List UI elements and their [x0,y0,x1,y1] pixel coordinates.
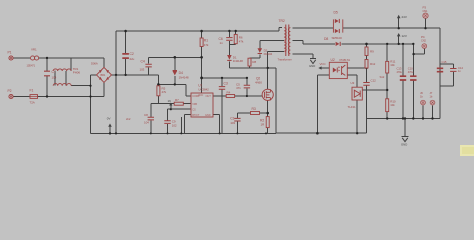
svg-text:GND: GND [205,113,211,117]
svg-text:47k: 47k [204,43,209,47]
svg-text:VCC: VCC [320,62,327,66]
svg-text:TL431: TL431 [348,105,356,109]
svg-text:P3: P3 [423,6,427,10]
svg-text:R9: R9 [370,49,374,53]
svg-text:C14: C14 [458,66,463,70]
svg-text:C12: C12 [371,78,377,82]
svg-text:22u: 22u [130,57,135,61]
svg-text:1N4148: 1N4148 [179,75,189,79]
svg-text:UC3842: UC3842 [198,88,209,92]
svg-text:CN2: CN2 [421,39,427,43]
svg-text:47k: 47k [239,39,244,43]
svg-text:104: 104 [144,120,149,124]
svg-text:470u: 470u [397,70,403,74]
svg-text:R7: R7 [175,98,179,102]
svg-text:1N4148: 1N4148 [233,59,243,63]
svg-text:OUT: OUT [206,94,212,98]
svg-text:D5: D5 [334,10,338,14]
svg-text:VCC: VCC [198,93,203,97]
svg-text:P2: P2 [8,89,12,93]
svg-text:470u: 470u [408,70,414,74]
svg-text:P4: P4 [421,35,425,39]
svg-text:D06A: D06A [91,62,98,66]
svg-text:24V: 24V [402,15,407,19]
svg-text:Transformer: Transformer [278,57,292,61]
svg-text:10k: 10k [390,63,395,67]
svg-text:CS: CS [192,107,196,111]
svg-text:T2A: T2A [30,101,35,105]
svg-text:10k: 10k [390,103,395,107]
svg-text:GND: GND [401,143,407,147]
svg-text:103: 103 [140,67,145,71]
svg-text:D8: D8 [324,37,328,41]
svg-text:U2: U2 [331,58,335,62]
svg-text:F1: F1 [30,88,34,92]
svg-text:C15: C15 [442,60,447,64]
svg-text:P1: P1 [8,51,12,55]
svg-text:10D471: 10D471 [27,64,36,68]
svg-text:2n2: 2n2 [126,117,131,121]
svg-text:1n: 1n [220,41,224,45]
svg-text:S12: S12 [380,75,385,79]
svg-text:VR1: VR1 [31,48,37,52]
svg-text:R3: R3 [252,107,256,111]
svg-text:471: 471 [236,86,241,90]
svg-text:4N60: 4N60 [255,80,262,84]
svg-text:GND: GND [309,64,315,68]
svg-text:TR2: TR2 [279,19,285,23]
svg-text:104: 104 [52,76,57,80]
svg-text:R4: R4 [227,91,231,95]
svg-text:47k: 47k [162,90,167,94]
svg-text:C2: C2 [130,52,134,56]
svg-text:102: 102 [172,123,177,127]
svg-text:BR1: BR1 [101,73,106,77]
svg-text:C8: C8 [144,113,148,117]
svg-text:16: 16 [168,99,172,103]
svg-text:C1: C1 [230,116,234,120]
svg-text:FR104: FR104 [264,52,273,56]
svg-text:PC817A: PC817A [340,58,351,62]
svg-text:C3: C3 [224,81,228,85]
svg-text:0V: 0V [107,117,111,121]
svg-text:U3: U3 [351,81,355,85]
svg-text:CN1: CN1 [423,9,429,13]
svg-text:RT/CT: RT/CT [192,113,200,117]
svg-text:R8: R8 [252,60,256,64]
svg-text:C4: C4 [141,60,145,64]
svg-text:C13: C13 [397,67,402,71]
svg-text:R12: R12 [370,62,376,66]
svg-text:C7: C7 [52,70,56,74]
svg-text:12V: 12V [402,34,407,38]
svg-text:SR5100: SR5100 [332,36,343,40]
svg-text:R1: R1 [204,38,208,42]
svg-text:103: 103 [230,121,235,125]
svg-text:C10: C10 [408,67,413,71]
svg-text:VFB: VFB [192,102,197,106]
svg-text:PH06: PH06 [73,71,81,75]
